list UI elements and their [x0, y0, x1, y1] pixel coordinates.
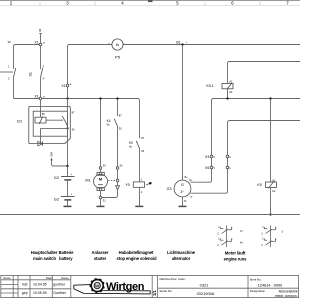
- svg-text:B1: B1: [176, 40, 180, 44]
- frame center mark: [148, 0, 153, 2]
- svg-text:0321: 0321: [200, 283, 209, 288]
- starter M1: [85, 164, 107, 206]
- battery G2: [54, 166, 75, 206]
- svg-text:starter: starter: [94, 256, 107, 261]
- svg-text:Anlasser: Anlasser: [92, 250, 109, 255]
- alternator G3: [167, 176, 191, 206]
- svg-text:W: W: [95, 283, 100, 288]
- wire to X1 bottom: [14, 98, 40, 100]
- contact K4: [107, 99, 123, 166]
- svg-text:Y0: Y0: [125, 183, 130, 187]
- svg-text:35A: 35A: [49, 152, 53, 157]
- svg-text:main switch: main switch: [33, 256, 56, 261]
- node dot at battery column: [66, 97, 68, 99]
- svg-text:Name: Name: [61, 276, 69, 280]
- svg-text:Wirtgen: Wirtgen: [106, 281, 145, 293]
- wire B1 to alternator: [182, 45, 184, 181]
- Wirtgen logo: [74, 278, 150, 294]
- connector X3: [205, 155, 231, 159]
- lower bus left section: [42, 98, 138, 100]
- D1 internal wire: [41, 127, 68, 129]
- ground Y0: [135, 205, 143, 207]
- title block left table text: [3, 276, 69, 280]
- svg-text:electr. compon.: electr. compon.: [275, 294, 297, 298]
- ground starter: [97, 205, 105, 207]
- svg-text:engine runs: engine runs: [224, 257, 247, 262]
- svg-text:3~: 3~: [180, 190, 184, 194]
- D1 contact: [46, 119, 63, 121]
- svg-text:K5: K5: [257, 183, 261, 187]
- stop solenoid Y0: [125, 177, 152, 205]
- main switch S1: [0, 46, 45, 99]
- svg-text:A1: A1: [229, 80, 233, 84]
- svg-text:G: G: [181, 182, 184, 187]
- svg-text:K5.1: K5.1: [207, 84, 214, 88]
- svg-text:Serial No:: Serial No:: [160, 289, 173, 293]
- wire corner to K0: [137, 99, 140, 139]
- wire W from G3 to right edge: [190, 121, 300, 194]
- svg-text:P5: P5: [115, 55, 121, 60]
- svg-text:A1: A1: [272, 179, 276, 183]
- svg-text:stop engine solenoid: stop engine solenoid: [117, 256, 157, 261]
- svg-text:D1: D1: [17, 119, 23, 124]
- svg-text:Date: Date: [46, 276, 52, 280]
- wire D+ from G3 up through connector to bus: [190, 99, 300, 183]
- D1 diode: [38, 141, 43, 146]
- svg-text:30: 30: [8, 40, 12, 44]
- terminal X1 top: [34, 41, 45, 46]
- svg-text:Gunther: Gunther: [53, 291, 66, 295]
- relay coil K5.1: [207, 62, 301, 99]
- title block: [1, 275, 299, 297]
- frame top border line 1: [0, 0, 300, 2]
- D1 coil: [35, 117, 46, 123]
- frame top border line 2: [0, 5, 300, 7]
- relay coil K5: [257, 99, 276, 215]
- legend labels: [31, 250, 247, 262]
- svg-text:30: 30: [38, 28, 42, 32]
- frame column ticks: [40, 1, 260, 6]
- svg-text:-: -: [125, 42, 126, 45]
- svg-text:X3: X3: [205, 155, 209, 159]
- junction battery top: [66, 165, 68, 167]
- svg-text:G3: G3: [167, 187, 172, 191]
- D1 inner rect: [33, 111, 67, 136]
- svg-text:K0: K0: [129, 141, 133, 145]
- svg-text:K4: K4: [107, 119, 111, 123]
- svg-text:Lichtmaschine: Lichtmaschine: [167, 250, 196, 255]
- node K5 to ground bus: [269, 213, 271, 215]
- ground battery: [64, 205, 72, 207]
- node dot M1 column: [99, 97, 101, 99]
- svg-text:G2: G2: [54, 196, 59, 201]
- node K5.1 to bus: [226, 97, 228, 99]
- svg-text:124814 - 0000: 124814 - 0000: [258, 284, 283, 288]
- svg-text:0321000A: 0321000A: [197, 291, 215, 296]
- svg-text:B-: B-: [184, 200, 187, 203]
- svg-text:gep: gep: [22, 291, 28, 295]
- ground bus 31: [0, 214, 300, 216]
- svg-text:A2: A2: [229, 90, 233, 94]
- svg-text:A2: A2: [272, 189, 276, 193]
- D1 coil feed wire: [40, 100, 42, 117]
- svg-text:w: w: [190, 195, 192, 198]
- svg-text:M1: M1: [85, 179, 90, 183]
- terminal X1 bottom: [34, 95, 45, 100]
- wire 30 from top with rotated label: [38, 28, 42, 43]
- node B1: [176, 40, 187, 45]
- svg-text:battery: battery: [59, 256, 73, 261]
- svg-text:Hauptschalter: Hauptschalter: [31, 250, 58, 255]
- terminal X1 battery column: [61, 83, 71, 88]
- svg-text:Inst: Inst: [22, 283, 28, 287]
- title block right text: [160, 277, 298, 298]
- connector X6: [205, 166, 231, 170]
- svg-text:G2: G2: [54, 175, 59, 180]
- svg-text:Machine Drw. Code:: Machine Drw. Code:: [160, 277, 186, 281]
- svg-text:alternator: alternator: [172, 256, 191, 261]
- D1 contact node: [66, 127, 68, 129]
- svg-text:S1: S1: [29, 72, 33, 76]
- relay module D1: [17, 100, 75, 146]
- main battery line through D1: [67, 87, 69, 166]
- svg-text:Ident No.: Ident No.: [250, 277, 262, 281]
- contact K0: [129, 136, 145, 182]
- top bus 30: [68, 45, 112, 85]
- svg-text:M: M: [99, 178, 102, 182]
- contact mirror K5: [264, 226, 275, 248]
- wire bus to starter M1: [100, 99, 102, 166]
- hour meter P5: [108, 39, 125, 60]
- starter solenoid terminal 50: [102, 164, 123, 198]
- svg-text:<: <: [213, 166, 215, 170]
- svg-text:Designation: Designation: [250, 289, 266, 293]
- svg-text:X1: X1: [61, 84, 65, 88]
- wire branch left to main switch: [14, 45, 40, 70]
- contact mirror K5.1: [220, 226, 231, 248]
- column numbers: [10, 1, 290, 6]
- svg-text:Name: Name: [3, 276, 11, 280]
- svg-text:X1: X1: [34, 95, 38, 99]
- ground alternator: [179, 205, 187, 207]
- svg-text:19.04.95: 19.04.95: [33, 283, 47, 287]
- svg-text:<: <: [213, 155, 215, 159]
- fused wire to battery with up arrow: [49, 152, 67, 166]
- svg-text:19.05.99: 19.05.99: [33, 291, 47, 295]
- svg-text:Batterie: Batterie: [59, 250, 75, 255]
- svg-text:X1: X1: [34, 41, 38, 45]
- node dot K4 column: [116, 97, 118, 99]
- D1 outer box: [29, 106, 71, 143]
- svg-text:1/1: 1/1: [152, 290, 157, 296]
- node K5 column: [269, 97, 271, 99]
- svg-text:X6: X6: [205, 166, 209, 170]
- svg-text:Motor läuft: Motor läuft: [225, 251, 246, 256]
- svg-text:gunther: gunther: [53, 283, 66, 287]
- svg-text:Hubabstellmagnet: Hubabstellmagnet: [119, 250, 154, 255]
